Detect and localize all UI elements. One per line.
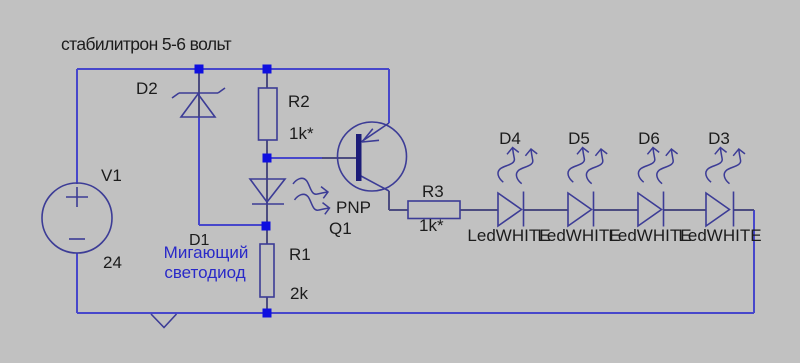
D4 emission arrow 1: [498, 148, 519, 183]
svg-text:R2: R2: [288, 92, 310, 111]
wire bottom horizontal: [77, 312, 754, 314]
lead D1 top: [266, 161, 268, 204]
node at R2 top: [263, 65, 272, 74]
wire D6 to D3: [664, 209, 706, 211]
wire R3 to D4: [460, 209, 498, 211]
lead R2 bottom: [266, 140, 268, 155]
lead D1 bottom: [266, 204, 268, 223]
svg-text:LedWHITE: LedWHITE: [678, 226, 761, 245]
node at D2 top: [195, 65, 204, 74]
wire left rail upper: [76, 69, 78, 184]
wire D3 to right rail: [734, 209, 754, 211]
svg-text:R1: R1: [289, 245, 311, 264]
Q1 base bar: [356, 134, 362, 181]
node base junction: [263, 154, 272, 163]
LED D4: [498, 192, 524, 227]
wire D5 to D6: [594, 209, 638, 211]
resistor R1: [260, 244, 274, 297]
svg-text:D2: D2: [136, 79, 158, 98]
lead base into transistor: [322, 157, 356, 159]
svg-text:Мигающий: Мигающий: [164, 243, 249, 262]
wire top horizontal: [77, 68, 389, 70]
svg-text:PNP: PNP: [336, 198, 371, 217]
D3 emission arrow 2: [724, 149, 745, 184]
D1 emission arrow 1: [293, 177, 328, 199]
lead R1 top: [266, 229, 268, 244]
resistor R2: [259, 88, 278, 140]
D4 emission arrow 2: [516, 149, 537, 184]
svg-text:1k*: 1k*: [289, 124, 314, 143]
svg-text:Q1: Q1: [329, 219, 352, 238]
LED D5: [568, 192, 594, 227]
svg-text:светодиод: светодиод: [164, 263, 245, 282]
ground: [151, 314, 177, 328]
wire to R3: [389, 209, 408, 211]
svg-text:24: 24: [103, 253, 122, 272]
wire D2 jog right: [199, 224, 266, 226]
wire D2 anode down: [198, 117, 200, 225]
resistor R3: [408, 201, 460, 219]
D1 emission arrow 2: [294, 193, 329, 215]
transistor Q1 PNP: [338, 122, 407, 191]
D5 emission arrow 1: [568, 148, 589, 183]
svg-text:D5: D5: [568, 129, 590, 148]
voltage source V1: [42, 183, 112, 253]
D5 emission arrow 2: [586, 149, 607, 184]
wire left rail lower: [76, 253, 78, 313]
zener diode D2: [172, 88, 225, 117]
svg-text:R3: R3: [422, 182, 444, 201]
wire right rail: [753, 210, 755, 313]
svg-text:D4: D4: [499, 129, 521, 148]
node D1/R1 junction: [262, 222, 271, 231]
svg-text:V1: V1: [101, 166, 122, 185]
wire base: [267, 157, 322, 159]
LED D6: [638, 192, 664, 227]
svg-text:1k*: 1k*: [419, 216, 444, 235]
LED D1 (blinking): [250, 179, 285, 204]
LED D3: [706, 192, 734, 227]
svg-text:стабилитрон 5-6 вольт: стабилитрон 5-6 вольт: [61, 34, 232, 54]
wire collector down: [388, 191, 390, 210]
Q1 emitter arrow: [362, 129, 379, 142]
wire D4 to D5: [524, 209, 568, 211]
D6 emission arrow 2: [657, 149, 678, 184]
svg-text:D6: D6: [638, 129, 660, 148]
svg-text:2k: 2k: [290, 284, 308, 303]
lead R2 top: [266, 72, 268, 88]
lead R1 bottom: [266, 297, 268, 310]
D6 emission arrow 1: [638, 148, 659, 183]
lead D2 cathode: [198, 72, 200, 117]
node R1 bottom: [263, 309, 272, 318]
D3 emission arrow 1: [706, 148, 727, 183]
wire right emitter drop: [388, 69, 390, 123]
svg-text:D3: D3: [708, 129, 730, 148]
